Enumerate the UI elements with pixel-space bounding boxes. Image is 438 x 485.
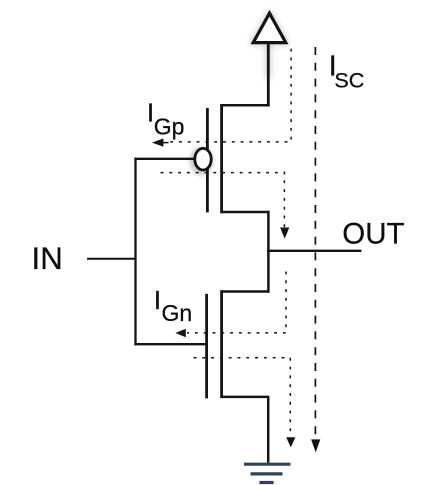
svg-text:Gp: Gp: [154, 114, 185, 140]
svg-text:IN: IN: [32, 241, 63, 276]
svg-text:I: I: [154, 285, 161, 315]
svg-text:SC: SC: [334, 67, 364, 92]
svg-text:Gn: Gn: [162, 300, 193, 326]
svg-text:OUT: OUT: [342, 217, 404, 250]
